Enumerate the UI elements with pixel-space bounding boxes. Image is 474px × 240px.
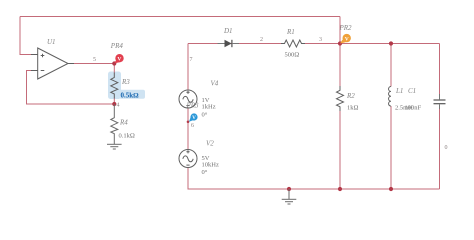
svg-text:2: 2 bbox=[260, 37, 263, 43]
svg-text:V2: V2 bbox=[206, 140, 214, 148]
svg-text:R1: R1 bbox=[286, 28, 295, 36]
svg-text:7: 7 bbox=[190, 57, 193, 63]
svg-text:C1: C1 bbox=[408, 87, 416, 95]
svg-text:100nF: 100nF bbox=[405, 105, 422, 112]
svg-text:0°: 0° bbox=[202, 169, 208, 176]
svg-text:4: 4 bbox=[117, 103, 120, 109]
svg-text:PR4: PR4 bbox=[110, 42, 124, 50]
svg-text:R3: R3 bbox=[121, 78, 130, 86]
svg-text:0.1kΩ: 0.1kΩ bbox=[119, 133, 135, 140]
svg-text:L1: L1 bbox=[395, 87, 403, 95]
svg-text:V: V bbox=[345, 36, 349, 42]
svg-text:V: V bbox=[192, 115, 196, 121]
svg-text:V: V bbox=[117, 56, 121, 62]
svg-text:6: 6 bbox=[191, 123, 194, 129]
svg-text:R2: R2 bbox=[346, 92, 355, 100]
svg-text:3: 3 bbox=[319, 37, 322, 43]
svg-text:R4: R4 bbox=[119, 119, 128, 127]
svg-text:0°: 0° bbox=[202, 112, 208, 119]
svg-text:5: 5 bbox=[93, 57, 96, 63]
svg-text:U1: U1 bbox=[47, 38, 56, 46]
svg-text:10kHz: 10kHz bbox=[202, 162, 219, 169]
svg-text:1kHz: 1kHz bbox=[202, 104, 216, 111]
svg-text:PR2: PR2 bbox=[339, 24, 353, 32]
svg-text:D1: D1 bbox=[223, 27, 233, 35]
svg-text:1kΩ: 1kΩ bbox=[347, 105, 359, 112]
svg-text:500Ω: 500Ω bbox=[285, 52, 300, 59]
svg-text:PR3: PR3 bbox=[186, 102, 200, 110]
svg-text:V4: V4 bbox=[211, 80, 219, 88]
svg-text:0: 0 bbox=[445, 145, 448, 151]
svg-text:0.5kΩ: 0.5kΩ bbox=[121, 91, 140, 99]
